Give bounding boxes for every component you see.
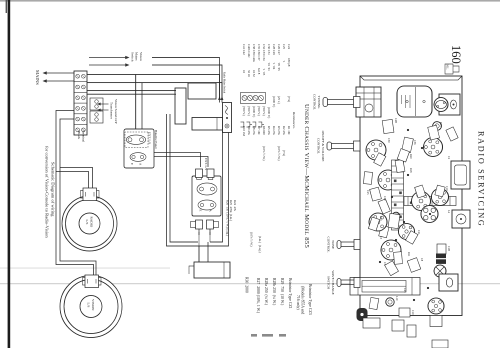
svg-text:for conversion of Vision-Conso: for conversion of Vision-Console to Radi… [45,146,50,238]
small part C3 [385,261,399,276]
small part C4b [382,119,394,133]
svg-text:Terminal: Terminal [82,130,86,142]
capacitor C10 box [399,308,410,317]
svg-text:R30 2000: R30 2000 [245,277,249,293]
wire: plug feed to conduit2 lower [198,246,200,262]
valve V7 [428,298,444,314]
svg-text:C36: C36 [413,140,416,145]
wire: radio speaker tee lower [56,172,89,189]
wire: plug pin stubs [199,232,210,246]
wire: block to switch (1) [87,75,220,103]
svg-text:CONTROL: CONTROL [327,236,331,252]
svg-text:R15: R15 [439,122,442,127]
terminal block [74,71,87,135]
gang dial connector (rear) [439,274,458,291]
wire: middle rail lower [167,114,199,246]
plug 2 [191,220,203,235]
valve V4 [412,192,431,211]
svg-text:Brimistor Type CZ3: Brimistor Type CZ3 [308,284,312,315]
wire: plug feed to conduit2 [207,242,209,262]
svg-text:R28a 250 (¼ W.): R28a 250 (¼ W.) [264,278,268,306]
cable conduit (chassis lead) [192,118,223,131]
svg-text:L/S: L/S [87,303,91,308]
wire: block to switch (2) [87,83,222,103]
svg-text:C45: C45 [403,288,406,293]
svg-text:L/S: L/S [85,220,89,225]
svg-text:WAVE CHANGE: WAVE CHANGE [331,270,335,294]
tone control shaft [337,240,360,250]
svg-text:716 only): 716 only) [296,295,300,310]
svg-text:VISION: VISION [91,299,95,311]
wire: middle rail upper [170,114,198,242]
svg-text:Radio Mains Switch: Radio Mains Switch [223,72,226,94]
scan crease faint line B [0,283,500,284]
valve V1 (top-left, oval base) [434,98,448,112]
svg-text:(Models 855A and: (Models 855A and [301,286,305,314]
transformer box (rear) [451,161,470,189]
wire: speaker feed rail lower [56,111,94,276]
valve V10 [432,189,449,206]
radio speaker transformer bracket [81,188,100,201]
wire: tee to panel lower [135,75,137,130]
svg-text:MAINS: MAINS [35,70,40,85]
svg-text:L10: L10 [395,296,398,301]
small part R9 [446,127,458,141]
valve V8 [369,213,387,231]
valve V2 [424,138,443,157]
dashed surround [125,132,148,148]
small part C21 [406,231,418,245]
small part C8 [407,258,421,273]
svg-text:C30: C30 [387,138,390,143]
svg-text:C22: C22 [383,196,386,201]
left plug A [207,169,214,180]
scan left-edge gray band [0,0,500,2]
svg-text:Schematic Diagram of wiring: Schematic Diagram of wiring [51,162,56,217]
wire: switch to vision mains arrows (1) [152,65,222,99]
svg-text:C4B: C4B [394,118,397,123]
right wall part b [392,320,404,331]
chassis tiny ref labels [366,118,450,315]
plug 1 [207,220,219,235]
svg-text:CONTROL: CONTROL [313,94,317,110]
aerial connector panel (rear apron) [439,94,460,115]
svg-text:C25: C25 [366,190,369,195]
extra small part R12 [378,199,390,214]
chassis speaker socket column [241,93,266,104]
svg-text:EXT. L/S: EXT. L/S [204,158,208,170]
rear box with circle [452,210,470,228]
svg-text:C10: C10 [411,310,414,315]
valve V9 [366,140,386,160]
svg-text:E: E [130,163,134,165]
svg-text:Resistances.: Resistances. [292,111,296,129]
wire: switch run to plugs (1) [198,133,229,247]
svg-text:R18: R18 [409,168,412,173]
ext l/s socket (2 hole) [126,135,145,144]
mains lead grommet [445,64,459,74]
small part R24 [388,213,400,228]
radio mains switch box [223,103,232,133]
svg-text:RADIO: RADIO [90,217,94,228]
dark blob on bottom edge [357,308,368,321]
scan crease faint line A [0,267,170,270]
wire: switch run to plugs (2) [210,131,223,242]
small part R2 [368,217,379,231]
svg-text:R29 750 (10 W.): R29 750 (10 W.) [280,278,284,306]
bakelite panel [124,129,154,168]
tuning gang assembly [350,278,420,296]
svg-text:C19: C19 [445,186,448,191]
electrolytic can C40 [397,86,432,117]
volume control shaft [327,141,360,151]
extra small part R8 [374,153,386,166]
o/p transformer tag boxes [90,98,103,123]
right edge component [430,316,442,327]
valve V3 [378,170,398,190]
control labels [313,94,336,295]
extra small part C17 [415,185,426,198]
small part C36 [402,137,414,153]
wire arrowheads at switch [218,96,223,100]
A/E jack [130,153,146,162]
svg-text:Brimistor Type CZ1: Brimistor Type CZ1 [288,278,292,309]
svg-text:Switch: Switch [130,52,134,62]
panel 2 (vision console) [192,176,221,216]
tag strip vertical [404,197,456,206]
svg-text:160: 160 [449,45,463,64]
svg-text:Block: Block [77,131,81,139]
svg-text:Bakelite Panel: Bakelite Panel [154,130,158,149]
svg-text:EXT. L/S: EXT. L/S [148,132,152,144]
capacitor C1b box [437,244,446,254]
page-edge component [432,340,448,348]
wire: radio speaker tee upper [60,168,93,189]
vision sound transformer arrows [97,103,109,112]
extra small part R22 [393,252,402,265]
tag strip horizontal [392,160,404,230]
coil L6 [392,212,400,220]
svg-text:TONE: TONE [331,240,335,249]
right wall part a [363,318,380,328]
vision speaker [60,276,122,338]
svg-text:Vision Sound O/P: Vision Sound O/P [114,99,118,124]
wire: switch to vision mains arrows (2) [152,58,220,100]
conduit A [188,83,216,99]
svg-text:C21: C21 [417,230,420,235]
wire: jack to plug B [143,153,201,168]
svg-text:(10% ½ W.): (10% ½ W.) [250,232,254,247]
coil L10 [386,298,394,306]
cable box (lead sleeve) [175,88,186,124]
wire: block to sleeve (4) [87,93,176,95]
choke (dark bars) [436,254,446,264]
svg-text:E: E [199,210,203,212]
page-edge print smudges [251,334,286,337]
mains arrows [43,71,75,82]
svg-text:C1B: C1B [447,246,450,251]
vision speaker connector strip [189,262,230,278]
rectifier socket V5 (4 holes) [421,206,438,223]
svg-text:UNDER CHASSIS VIEW—MCMICHAEL M: UNDER CHASSIS VIEW—MCMICHAEL MODEL 855 [303,104,310,248]
wire: speaker feed rail upper [60,119,96,275]
svg-text:ON/OFF & VOLUME: ON/OFF & VOLUME [321,131,325,162]
svg-text:R24: R24 [379,216,382,221]
small part C19 [435,185,445,197]
svg-text:R11: R11 [407,252,410,257]
vision mains switch arrows [89,56,130,67]
extra small part R17 [395,159,405,172]
left plug B [196,169,203,180]
valve V11 [399,224,415,240]
extra small part C14 [379,225,389,238]
wire: tee to panel upper [141,83,143,129]
small part R20 [397,149,409,162]
tuning control shaft [323,97,360,108]
wave change switch shaft [337,278,360,288]
svg-text:R20: R20 [409,154,412,159]
gutter corner tick [6,0,7,13]
svg-text:TUNING: TUNING [317,96,321,110]
wire: block to sleeve (3) [87,90,176,92]
extra small part C6 [369,297,379,309]
svg-text:SWITCH: SWITCH [327,276,331,290]
svg-text:M.L.: M.L. [446,65,449,71]
small part C25 [370,187,382,201]
radio speaker [62,196,117,251]
mounting bracket [356,87,381,117]
right wall part c [407,325,416,337]
svg-text:R28b 250 (¼ W.): R28b 250 (¼ W.) [272,278,276,306]
svg-text:RADIO SERVICING: RADIO SERVICING [477,131,486,227]
svg-text:Transformer: Transformer [110,102,114,120]
svg-text:CONTROL: CONTROL [317,138,321,154]
vision speaker bracket [83,275,102,288]
trimmer (circle with cross) [434,265,446,277]
chassis inner flange line left [360,76,462,80]
schematic labels [35,52,226,311]
coil L8 [433,122,442,131]
extra small part C33 [363,172,372,185]
chassis outline [360,76,462,316]
valve V6 [381,240,401,260]
small part R15 [428,125,440,140]
speaker plug column [241,122,265,127]
svg-text:(Lin.) (Lag.): (Lin.) (Lag.) [258,236,262,253]
wire: jack to plug A [137,157,208,168]
book gutter black line (page bottom) [8,0,11,348]
extra solder dots [379,129,431,301]
